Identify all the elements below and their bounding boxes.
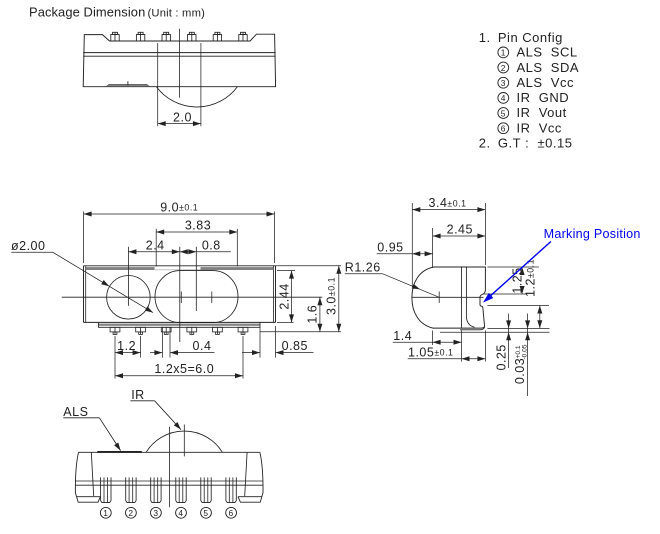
svg-text:3: 3: [153, 508, 158, 518]
dimension 1.25: [483, 267, 539, 294]
svg-text:ALS: ALS: [63, 405, 88, 419]
svg-text:4: 4: [178, 508, 183, 518]
lead 3 (front view): [151, 477, 161, 502]
dimension 1.4: [393, 329, 462, 345]
dimension 0.95: [377, 241, 433, 257]
dimension 0.8: [180, 238, 231, 254]
lead 4 (front view): [176, 477, 186, 502]
dimension 1.2x5=6.0: [115, 336, 243, 379]
svg-text:ø2.00: ø2.00: [11, 239, 45, 253]
svg-text:3: 3: [501, 78, 506, 88]
left end terminal: [75, 452, 100, 502]
IR dome: [156, 87, 237, 107]
label ALS with leader: [63, 405, 120, 451]
body outline: [83, 34, 275, 86]
dimension 0.4: [150, 327, 215, 357]
lead 1 (front view): [101, 477, 111, 502]
profile axis center line: [412, 296, 484, 298]
dimension 0.03 +0.1/-0.05: [513, 314, 530, 397]
svg-text:3.4±0.1: 3.4±0.1: [429, 196, 467, 210]
svg-text:1.05±0.1: 1.05±0.1: [408, 345, 453, 359]
body outline with double side edges: [84, 266, 276, 323]
pin 3 (side view): [162, 32, 170, 41]
lead 5 (front view): [201, 477, 211, 502]
ALS aperture circle: [107, 276, 151, 320]
IR dome front: [146, 431, 222, 452]
svg-text:6: 6: [229, 508, 234, 518]
svg-text:2.4: 2.4: [146, 238, 165, 252]
bottom lip: [99, 322, 261, 327]
svg-text:3.83: 3.83: [185, 219, 211, 233]
svg-text:ALS SDA: ALS SDA: [517, 60, 580, 75]
dimension 0.25: [494, 314, 511, 371]
dimension 1.05±0.1: [408, 331, 486, 362]
lead 2 (front view): [126, 477, 136, 502]
svg-text:5: 5: [203, 508, 208, 518]
pin 4 (plan view): [187, 327, 197, 334]
marking position label (blue): [483, 227, 641, 303]
dimension 3.0±0.1: [260, 266, 341, 332]
svg-text:1.2: 1.2: [117, 339, 136, 353]
dimension 0.85: [242, 326, 314, 358]
IR dome center tick: [183, 425, 185, 457]
center line: [168, 427, 170, 508]
dimension 1.2±0.1: [487, 259, 549, 328]
dimension 9.0±0.1: [84, 201, 275, 263]
svg-text:ALS SCL: ALS SCL: [517, 45, 578, 60]
pin 5 label: [498, 105, 567, 120]
dimension 1.6: [306, 297, 323, 332]
pin number 4: [176, 507, 187, 518]
ALS window edge: [97, 451, 142, 453]
svg-text:1.: 1.: [479, 30, 491, 45]
svg-text:6: 6: [501, 123, 506, 133]
svg-text:IR Vout: IR Vout: [517, 105, 567, 120]
svg-text:IR GND: IR GND: [517, 90, 570, 105]
ext line bottom edge: [488, 327, 550, 329]
svg-text:Package Dimension: Package Dimension: [29, 5, 145, 20]
body top edge: [79, 451, 260, 453]
bottom surface gray edge: [99, 324, 260, 326]
pin number 2: [125, 507, 136, 518]
arc center cross: [438, 292, 440, 304]
pin 4 (side view): [188, 32, 196, 41]
IR detector obround: [155, 271, 238, 323]
svg-text:2: 2: [128, 508, 133, 518]
view 4: front elevation: [63, 388, 263, 518]
svg-text:IR Vcc: IR Vcc: [517, 120, 562, 135]
svg-text:5: 5: [501, 108, 506, 118]
leader ø2.00: [11, 239, 153, 312]
pin 4 label: [498, 90, 569, 105]
svg-text:3.0±0.1: 3.0±0.1: [325, 277, 339, 315]
svg-text:1: 1: [103, 508, 108, 518]
pin number 1: [100, 507, 111, 518]
dimension 3.83: [156, 219, 237, 267]
svg-text:Marking Position: Marking Position: [544, 227, 641, 241]
svg-text:0.8: 0.8: [202, 238, 221, 252]
parting line (double): [83, 52, 275, 54]
horizontal center line: [62, 296, 323, 298]
view 3: end profile view: [345, 196, 641, 396]
pin 3 (plan view): [161, 327, 171, 334]
pin 2 (side view): [136, 32, 144, 41]
svg-text:2: 2: [501, 63, 506, 73]
svg-text:2.44: 2.44: [277, 283, 291, 309]
pin 6 (plan view): [238, 327, 248, 334]
lens interface lines: [462, 267, 475, 328]
ALS window (gray): [106, 81, 149, 86]
top surface gray edge: [86, 267, 155, 270]
svg-text:0.95: 0.95: [377, 241, 403, 255]
pin number 6: [226, 507, 237, 518]
svg-text:0.4: 0.4: [193, 339, 212, 353]
svg-text:G.T : ±0.15: G.T : ±0.15: [498, 136, 573, 151]
svg-text:1.6: 1.6: [306, 305, 320, 324]
obround arc center ticks: [181, 292, 212, 304]
svg-text:-0.05: -0.05: [522, 344, 529, 359]
svg-text:0.25: 0.25: [494, 344, 508, 370]
svg-text:2.0: 2.0: [173, 111, 192, 125]
vertical center line: [179, 247, 181, 342]
dimension 1.2 (pitch): [115, 336, 141, 379]
pin 3 label: [498, 75, 574, 90]
pin 6 (side view): [239, 32, 247, 41]
label IR with leader: [130, 388, 181, 430]
IR emitter center line: [195, 247, 197, 311]
svg-text:IR: IR: [131, 388, 145, 402]
pin 6 label: [498, 120, 562, 135]
seating plane line: [440, 331, 550, 333]
dimension 3.4±0.1: [412, 196, 485, 287]
dimension 2.44: [277, 271, 295, 323]
svg-text:ALS Vcc: ALS Vcc: [517, 75, 574, 90]
pin number 3: [151, 507, 162, 518]
view 2: plan view: [11, 201, 341, 379]
svg-text:2.: 2.: [479, 136, 491, 151]
svg-text:Pin Config: Pin Config: [498, 30, 563, 45]
lead 6 (front view): [226, 477, 236, 502]
dimension 2.45: [433, 223, 486, 268]
circle center line: [127, 247, 129, 306]
svg-text:R1.26: R1.26: [345, 261, 381, 275]
svg-text:9.0±0.1: 9.0±0.1: [160, 201, 198, 215]
right end terminal: [238, 452, 263, 502]
dimension 2.0: [158, 43, 201, 126]
svg-text:0.85: 0.85: [282, 339, 308, 353]
pin number 5: [201, 507, 212, 518]
profile outline: [412, 267, 486, 328]
svg-text:(Unit : mm): (Unit : mm): [148, 7, 206, 19]
pin 1 (plan view): [110, 327, 120, 334]
svg-text:1: 1: [501, 48, 506, 58]
center line: [179, 29, 181, 98]
pin 5 (plan view): [213, 327, 223, 334]
svg-text:1.2x5=6.0: 1.2x5=6.0: [154, 362, 214, 376]
pin 2 label: [498, 60, 579, 75]
pin 1 (side view): [111, 32, 119, 41]
view 1: side elevation with IR dome: [83, 29, 275, 126]
lead foot underside: [460, 327, 485, 330]
pin 5 (side view): [213, 32, 221, 41]
svg-text:0.03: 0.03: [513, 358, 527, 384]
dimension 2.4: [128, 238, 179, 254]
pin configuration notes: [479, 30, 579, 151]
leader R1.26: [345, 261, 439, 298]
svg-text:4: 4: [501, 93, 506, 103]
body horizontal lines: [75, 480, 263, 482]
pin 1 label: [498, 45, 578, 60]
svg-text:1.4: 1.4: [393, 329, 412, 343]
pin 2 (plan view): [136, 327, 146, 334]
svg-text:2.45: 2.45: [447, 223, 473, 237]
